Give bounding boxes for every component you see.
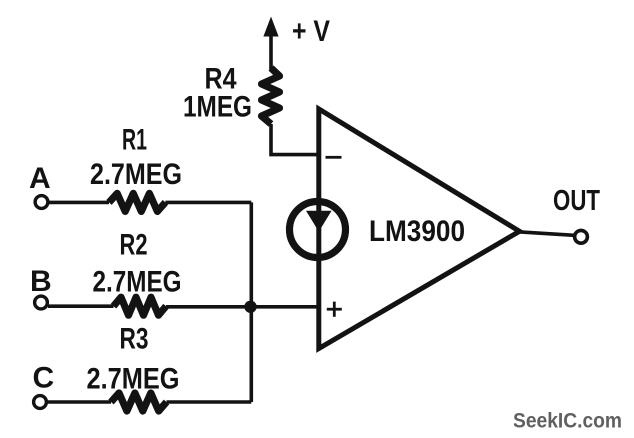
resistor R1 [109, 193, 165, 211]
minus input pin symbol [326, 156, 342, 159]
wire R3 to bus [167, 400, 252, 404]
svg-text:A: A [29, 162, 51, 195]
wire B to R2 [48, 304, 114, 308]
input terminal A [35, 196, 48, 209]
plus input pin symbol [327, 302, 342, 317]
wire A to R1 [49, 201, 110, 205]
svg-text:+ V: + V [292, 15, 330, 48]
+V power terminal arrow [263, 17, 278, 71]
output wire [518, 232, 574, 236]
resistor R4 [262, 68, 280, 124]
resistor R2 [114, 297, 167, 315]
svg-text:SeekIC.com: SeekIC.com [513, 410, 622, 433]
svg-text:2.7MEG: 2.7MEG [90, 158, 182, 191]
svg-text:R3: R3 [120, 323, 149, 356]
resistor R3 [111, 393, 167, 411]
current source symbol inside op-amp [290, 202, 346, 258]
svg-text:C: C [33, 362, 55, 395]
wire R4 to inverting input [271, 124, 317, 155]
svg-text:B: B [30, 265, 52, 298]
svg-text:OUT: OUT [553, 185, 600, 217]
wire R1 to bus [165, 201, 251, 205]
wire R2 to junction and noninverting input [166, 305, 317, 309]
svg-text:2.7MEG: 2.7MEG [87, 363, 180, 396]
svg-text:R1: R1 [122, 124, 147, 157]
svg-text:2.7MEG: 2.7MEG [93, 266, 182, 299]
output terminal circle [575, 230, 588, 243]
svg-text:R2: R2 [120, 229, 148, 262]
svg-text:LM3900: LM3900 [369, 215, 465, 248]
op-amp U1 LM3900 triangle [319, 109, 520, 349]
input terminal C [34, 396, 47, 409]
svg-text:1MEG: 1MEG [183, 91, 252, 124]
summing bus wire [250, 202, 254, 402]
wire C to R3 [47, 400, 111, 404]
input terminal B [35, 296, 48, 309]
junction node dot [244, 301, 256, 313]
